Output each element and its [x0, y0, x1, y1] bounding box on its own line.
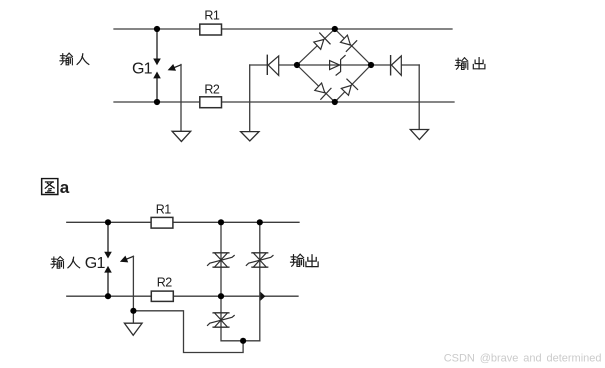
wire: G1 arrow down through bottom line — [132, 256, 134, 323]
svg-text:G1: G1 — [132, 61, 153, 78]
svg-text:R2: R2 — [204, 83, 219, 97]
label output 输出 — [455, 58, 468, 70]
node: TVS2 top — [257, 219, 263, 225]
node: input top — [105, 219, 111, 225]
bridge diode lower-right (points to right node) — [341, 79, 357, 95]
wire: vertical to ground below left diode — [249, 65, 251, 132]
ground (right side) — [410, 130, 428, 140]
label input 输入 — [60, 53, 73, 65]
diode D-right (points left) — [390, 56, 392, 75]
label output 输出 — [291, 254, 304, 266]
label 图a — [42, 179, 58, 195]
resistor R2 — [151, 291, 173, 301]
wire: branch from ground node to lower TVS return — [133, 311, 243, 353]
svg-text:R1: R1 — [156, 202, 171, 216]
resistor R1 — [200, 24, 222, 35]
TVS1 (bidirectional, left top) — [208, 253, 235, 267]
wire: right TVS vertical — [259, 222, 261, 340]
node: return branch — [240, 338, 246, 344]
junction chevron on right vertical at bottom line — [260, 292, 265, 301]
node: TVS1 top — [218, 219, 224, 225]
wire: bottom line — [114, 101, 454, 103]
TVS diode (bridge centre, zener bar) — [330, 56, 346, 76]
node: bridge top — [332, 26, 338, 32]
bridge arm: bottom-left — [297, 65, 335, 102]
ground — [124, 323, 142, 335]
diode D-left (points left) — [266, 55, 268, 74]
svg-text:a: a — [60, 178, 70, 197]
ground (middle, under left diode branch) — [241, 132, 259, 141]
bridge diode lower-left (points to bottom node) — [315, 83, 331, 99]
resistor R1 — [151, 217, 173, 228]
wire: middle line (left diode to right diode) — [250, 64, 420, 66]
bridge arm: top-right — [335, 29, 371, 65]
node: ground branch — [130, 308, 136, 314]
TVS2 (bidirectional, right top) — [246, 253, 273, 267]
node: bottom-left junction — [154, 99, 160, 105]
svg-text:R2: R2 — [157, 275, 172, 289]
bridge diode upper-right (points to right node) — [341, 35, 357, 51]
label input 输入 — [51, 257, 64, 269]
svg-text:R1: R1 — [204, 9, 219, 23]
wire: left TVS vertical — [220, 222, 222, 296]
wire: vertical to ground right side — [418, 65, 420, 130]
resistor R2 — [200, 97, 222, 108]
wire: top line — [67, 221, 299, 223]
G1 diagonal arrow — [174, 65, 182, 68]
G1 up arrow — [156, 78, 158, 102]
G1 diagonal arrow — [127, 256, 134, 259]
node: input bottom — [105, 293, 111, 299]
TVS3 (bidirectional, below bottom line) — [208, 313, 235, 327]
G1 down arrow — [107, 222, 109, 252]
svg-text:CSDN @brave and determined: CSDN @brave and determined — [444, 352, 602, 364]
node: bridge right — [368, 62, 374, 68]
node: TVS1 bottom — [218, 293, 224, 299]
svg-text:G1: G1 — [85, 255, 106, 272]
bridge arm: top-left — [297, 29, 335, 65]
G1 down arrow — [156, 29, 158, 59]
wire: bottom line — [67, 295, 298, 297]
wire: left TVS vertical below bottom line — [221, 296, 260, 341]
bridge diode upper-left (points to top node) — [314, 33, 330, 49]
G1 up arrow — [107, 272, 109, 296]
wire: top line — [114, 28, 452, 30]
wire: G1 arrow to ground — [180, 65, 182, 132]
node: top-left junction — [154, 26, 160, 32]
ground (under G1) — [172, 131, 191, 141]
node: bridge left — [294, 62, 300, 68]
bridge arm: bottom-right — [335, 65, 371, 102]
node: bridge bottom — [332, 99, 338, 105]
